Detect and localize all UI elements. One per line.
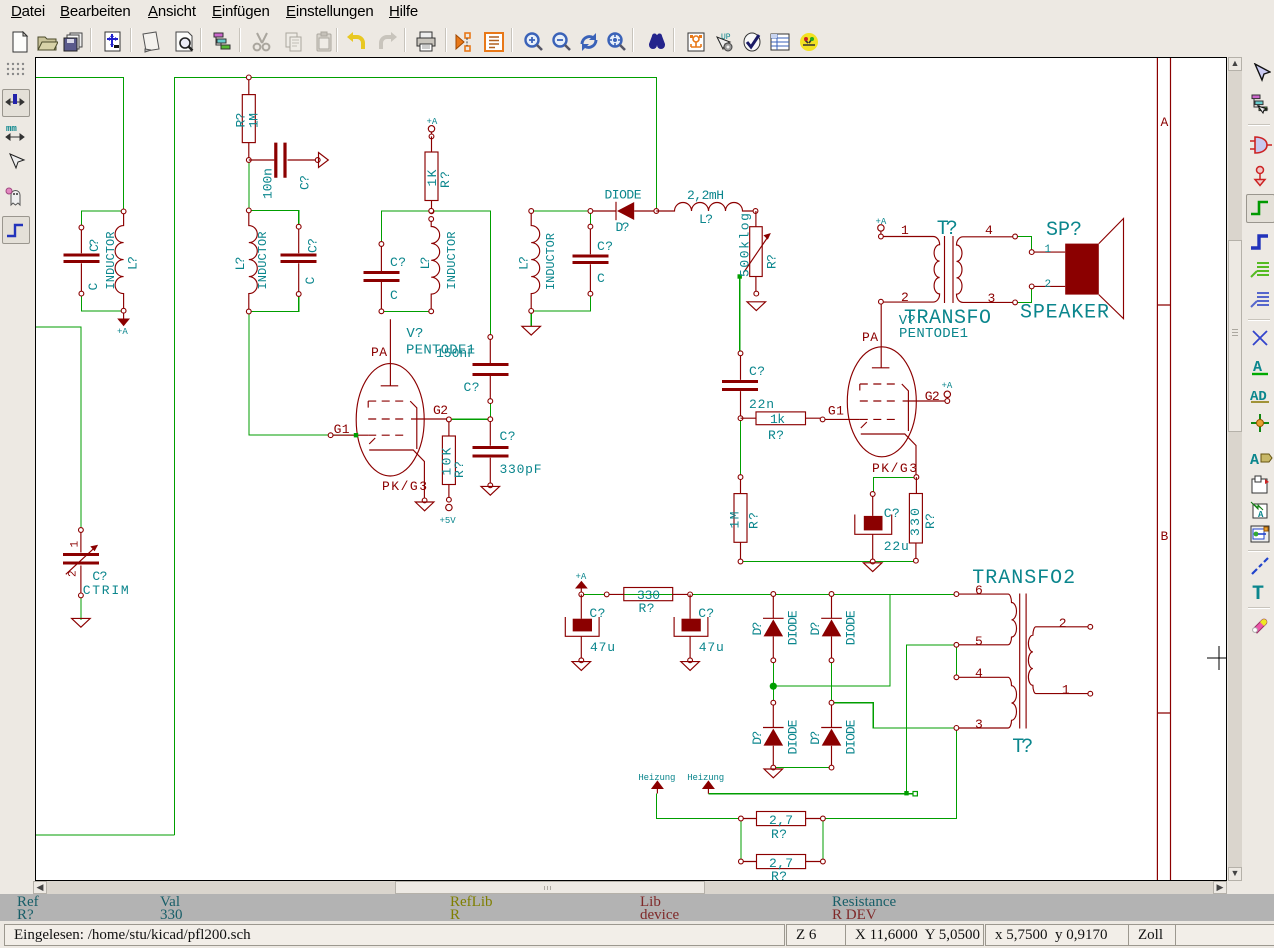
resistor R2 1K (425, 136, 453, 213)
electrolytic capacitor C? 47u b (674, 594, 724, 662)
wire supply rail +A (581, 593, 956, 595)
wire PK tube2 to C22u (873, 478, 915, 494)
svg-text:C?: C? (306, 238, 321, 253)
wire R1M to tank2 (248, 160, 250, 210)
diode D? bridge top-left (750, 592, 800, 663)
svg-text:D?: D? (616, 220, 630, 235)
svg-text:2,7: 2,7 (769, 813, 793, 828)
svg-text:D?: D? (808, 622, 823, 636)
svg-text:SPEAKER: SPEAKER (1020, 302, 1109, 325)
resistor R? 330 vertical (908, 477, 938, 563)
speaker SP? (1020, 219, 1124, 325)
mouse crosshair (1207, 646, 1227, 670)
junction dot DC minus (770, 683, 777, 690)
svg-text:A: A (1161, 115, 1169, 130)
wire 2,7 right link (822, 819, 824, 862)
svg-text:INDUCTOR: INDUCTOR (544, 233, 558, 290)
svg-text:PA: PA (371, 345, 387, 360)
svg-text:C?: C? (597, 239, 613, 254)
svg-text:C?: C? (87, 239, 102, 253)
svg-text:D?: D? (750, 731, 765, 745)
ground bridge minus (764, 769, 783, 778)
wire T? pin3 to speaker pin2 (1015, 286, 1031, 302)
svg-text:+5V: +5V (440, 516, 457, 526)
tube V? PENTODE1 left (328, 319, 475, 503)
svg-text:TRANSFO: TRANSFO (904, 307, 991, 330)
svg-text:2,2mH: 2,2mH (687, 188, 724, 203)
electrolytic capacitor C? 47u a (565, 594, 615, 662)
transformer T? TRANSFO2 (954, 567, 1093, 759)
svg-text:L?: L? (126, 256, 141, 270)
wire bridge bottom rail (773, 767, 831, 769)
svg-text:INDUCTOR: INDUCTOR (256, 232, 270, 290)
electrolytic capacitor C? 22u (855, 492, 909, 564)
svg-text:R?: R? (765, 254, 780, 269)
svg-text:V?: V? (406, 326, 423, 342)
inductor L? tank2 (233, 208, 270, 314)
svg-text:R?: R? (923, 513, 938, 529)
wire bridge AC to T2 pin3 (832, 703, 957, 728)
svg-text:3: 3 (975, 717, 983, 732)
svg-text:1M: 1M (728, 512, 743, 529)
svg-text:1k: 1k (770, 412, 785, 427)
wire left bottom rail (36, 834, 175, 836)
svg-text:R?: R? (639, 601, 655, 616)
capacitor C? tank2 (281, 224, 321, 296)
svg-text:+A: +A (576, 572, 587, 582)
variable capacitor C? CTRIM (63, 528, 129, 598)
wire supply rail branch down (773, 594, 890, 686)
power flag Heizung 1 (638, 773, 675, 794)
tube V? PENTODE1 right (820, 302, 968, 480)
inductor L? tank3 (418, 208, 459, 313)
diode D? bridge bottom-right (808, 700, 858, 770)
diode D? bridge top-right (808, 592, 858, 663)
wire tank3 bottom rail (381, 310, 431, 312)
svg-text:C?: C? (500, 429, 516, 444)
svg-text:R?: R? (747, 512, 762, 529)
svg-text:A: A (1258, 510, 1264, 520)
svg-text:G1: G1 (334, 422, 350, 437)
inductor L? tank1 (104, 209, 141, 313)
wire T2 pin5 to pin4 (955, 645, 957, 678)
capacitor C? tank3 (363, 242, 406, 314)
wire T? pin4 to speaker pin1 (1015, 237, 1031, 253)
svg-text:DIODE: DIODE (785, 719, 800, 754)
svg-text:D?: D? (808, 731, 823, 745)
junction +A / C47u a (579, 592, 584, 597)
svg-text:4: 4 (985, 223, 993, 238)
svg-text:L?: L? (699, 212, 713, 227)
svg-text:1M: 1M (247, 113, 262, 128)
wire bottom mid rail (741, 561, 916, 563)
svg-text:2: 2 (68, 570, 80, 577)
svg-text:A: A (1250, 452, 1259, 469)
svg-text:C?: C? (92, 569, 107, 584)
svg-text:1: 1 (1062, 683, 1070, 698)
svg-text:TRANSFO2: TRANSFO2 (972, 567, 1075, 590)
capacitor C? 22n (722, 351, 774, 418)
svg-text:G2: G2 (925, 389, 940, 404)
transformer T? TRANSFO (879, 218, 1018, 330)
power flag Heizung 2 (687, 773, 724, 794)
vertical scrollbar (1228, 57, 1242, 881)
svg-text:R?: R? (771, 869, 787, 880)
resistor R1 1M top (234, 75, 262, 162)
svg-text:2: 2 (901, 290, 909, 305)
svg-text:C?: C? (589, 606, 605, 621)
svg-text:INDUCTOR: INDUCTOR (104, 232, 118, 290)
wire tank1 bottom rail (81, 294, 123, 311)
svg-text:C?: C? (464, 380, 480, 395)
ground under C47u b (681, 662, 700, 671)
top toolbar (0, 25, 1274, 56)
wire G2 tube1 to node (452, 418, 490, 420)
wire bridge left vertical (772, 660, 774, 702)
wire 2,7 left link (740, 819, 742, 862)
svg-text:Heizung: Heizung (638, 773, 675, 783)
capacitor C? tank1 (63, 225, 102, 296)
svg-text:L?: L? (517, 256, 532, 270)
svg-text:5: 5 (975, 634, 983, 649)
resistor R? 2,7 upper (739, 812, 826, 843)
inductor L? 2,2mH (656, 188, 758, 227)
capacitor C? 150nF (436, 335, 508, 404)
resistor R? 1M bottom (728, 475, 762, 564)
wire tank2 to G1 tube1 (249, 312, 354, 435)
resistor R? 330 horizontal (604, 588, 690, 617)
svg-text:DIODE: DIODE (785, 610, 800, 645)
wire T2 pin3 to heater resistors (823, 728, 957, 819)
svg-text:+A: +A (876, 217, 887, 227)
svg-text:500klog: 500klog (738, 213, 753, 277)
diode D? bridge bottom-left (750, 700, 800, 770)
svg-text:+A: +A (117, 327, 128, 337)
svg-text:C?: C? (298, 175, 313, 190)
svg-text:3: 3 (988, 291, 996, 306)
svg-text:+A: +A (942, 381, 953, 391)
svg-text:PK/G3: PK/G3 (872, 461, 917, 476)
resistor R? 2,7 lower (739, 855, 826, 885)
svg-text:330: 330 (908, 508, 923, 536)
svg-text:C?: C? (698, 606, 714, 621)
resistor R? 1k (741, 412, 823, 443)
power +A at R2 1K (427, 117, 438, 139)
svg-text:100n: 100n (261, 168, 276, 199)
junction 22n / 1k / 1M (738, 416, 743, 421)
svg-text:22n: 22n (749, 397, 774, 412)
menu bar (0, 0, 1274, 25)
svg-text:4: 4 (975, 666, 983, 681)
wire main top rail (175, 77, 657, 835)
left tool column (0, 56, 33, 893)
diode D? detector (588, 188, 659, 236)
wire cap150n to node G2 (489, 401, 491, 419)
svg-text:47u: 47u (590, 640, 615, 655)
svg-text:DIODE: DIODE (844, 610, 859, 645)
svg-text:L?: L? (418, 257, 433, 270)
capacitor C? 100n coupling (249, 143, 328, 199)
svg-text:C?: C? (749, 364, 765, 379)
wire Heizung2 run (708, 793, 913, 795)
sheet frame right border lines (1157, 58, 1170, 880)
svg-text:C: C (86, 283, 101, 291)
ground under 330pF (481, 486, 500, 495)
svg-text:mm: mm (6, 124, 17, 134)
svg-text:2: 2 (1059, 616, 1067, 631)
svg-text:PA: PA (862, 330, 878, 345)
svg-text:B: B (1161, 529, 1169, 544)
svg-text:DIODE: DIODE (844, 719, 859, 754)
capacitor C? 330pF (472, 419, 541, 487)
svg-text:22u: 22u (884, 539, 909, 554)
svg-text:T: T (1252, 583, 1264, 603)
svg-text:PK/G3: PK/G3 (382, 479, 427, 494)
svg-text:R?: R? (768, 428, 784, 443)
ground under tank4 (522, 326, 541, 335)
wire CTRIM to ground (80, 598, 82, 620)
power +A supply arrow (575, 572, 588, 594)
wire antenna top-left rail (36, 77, 124, 211)
junction node G2 tube1 (488, 417, 493, 422)
right tool column (1244, 56, 1274, 893)
svg-text:INDUCTOR: INDUCTOR (445, 232, 459, 290)
wire T2 pin5 heater drop (907, 645, 957, 792)
svg-text:C: C (597, 271, 605, 286)
svg-text:R?: R? (452, 461, 467, 478)
svg-text:D?: D? (750, 622, 765, 636)
svg-text:G1: G1 (828, 404, 844, 419)
capacitor C? tank4 (572, 224, 613, 296)
svg-text:1: 1 (1045, 244, 1052, 256)
svg-text:DIODE: DIODE (605, 188, 642, 203)
wire pot wiper down (739, 277, 741, 354)
wire Heizung1 drop (657, 794, 741, 819)
svg-text:L?: L? (233, 257, 248, 271)
svg-text:C?: C? (884, 506, 900, 521)
wire tank1 top rail (81, 211, 123, 228)
resistor R? 10K (440, 417, 468, 502)
ground under 22u rail (863, 563, 882, 572)
svg-text:2: 2 (1045, 279, 1052, 291)
wire tank2 top rail (249, 210, 299, 226)
wire tank2 bottom rail (249, 294, 299, 312)
potentiometer R? 500klog (738, 211, 780, 296)
wire tank3 top rail (381, 211, 490, 335)
junction 330 / C47u b (688, 592, 693, 597)
svg-text:G2: G2 (433, 403, 448, 418)
wire 22n node down to 1M (740, 418, 742, 477)
svg-text:T?: T? (1012, 736, 1033, 759)
svg-text:SP?: SP? (1046, 219, 1082, 242)
svg-text:1: 1 (70, 541, 82, 548)
wire tank4 bottom rail (531, 294, 590, 326)
svg-text:CTRIM: CTRIM (83, 583, 129, 598)
ground under tube1 PK (415, 502, 434, 511)
svg-text:330pF: 330pF (500, 462, 542, 477)
wire tank4 top rail (531, 211, 590, 227)
ground under CTRIM (72, 618, 91, 627)
horizontal scrollbar (33, 881, 1227, 894)
power +A at T? pin1 (876, 217, 887, 234)
svg-text:PENTODE1: PENTODE1 (406, 343, 475, 359)
svg-text:R?: R? (771, 827, 787, 842)
svg-text:R?: R? (438, 171, 453, 188)
svg-text:Heizung: Heizung (687, 773, 724, 783)
svg-text:C: C (303, 277, 318, 285)
power +A down at tank1 (117, 313, 130, 337)
svg-text:47u: 47u (699, 640, 724, 655)
power +5V under 10K (440, 504, 457, 526)
wire end square Heizung2 run (913, 792, 917, 796)
wire CTRIM branch (36, 327, 81, 527)
ground under potentiometer (747, 302, 766, 311)
svg-text:T?: T? (937, 218, 958, 241)
svg-text:1: 1 (901, 223, 909, 238)
ground under C47u a (572, 662, 591, 671)
inductor L? tank4 (517, 209, 559, 314)
power +A at tube2 G2 (942, 381, 953, 403)
message panel (0, 894, 1274, 921)
svg-text:C?: C? (390, 255, 406, 270)
status bar (0, 921, 1274, 948)
wire bridge right vertical (831, 660, 833, 702)
wire end square T2 pin5 drop (904, 791, 908, 795)
svg-text:C: C (390, 288, 398, 303)
